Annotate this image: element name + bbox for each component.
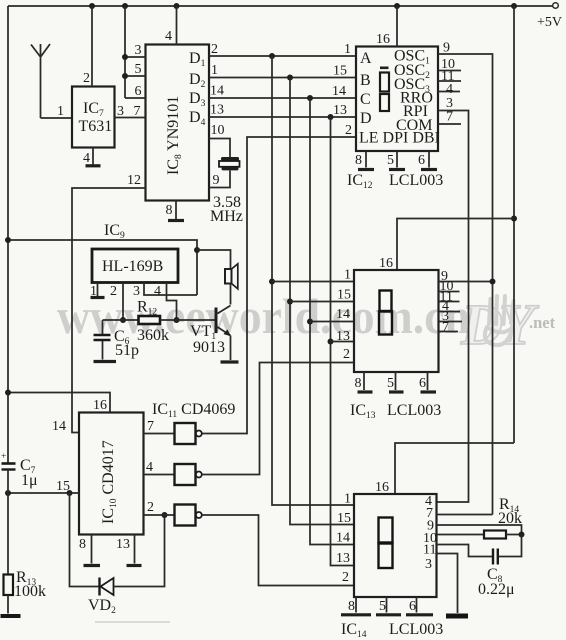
ground (IC14 pin8) xyxy=(341,613,371,616)
node: rail junction at IC12 pin16 drop xyxy=(394,3,400,9)
svg-text:D: D xyxy=(360,110,372,127)
display segments inside IC12 xyxy=(380,67,389,70)
wire IC7 pin3 to IC8 pin7 xyxy=(115,117,146,119)
svg-text:51p: 51p xyxy=(115,342,139,359)
svg-text:8: 8 xyxy=(166,203,173,218)
node: junction pin3 xyxy=(122,54,128,60)
wire IC14 pin5 to ground xyxy=(386,597,388,613)
wire IC10 pin16 to left rail xyxy=(8,393,110,413)
IC9 supply wire from left rail xyxy=(8,240,197,295)
wire +5V branch to IC14 pin16 xyxy=(395,443,514,494)
node: bus3 tap IC13 pin14 xyxy=(307,319,313,325)
svg-text:1: 1 xyxy=(211,63,218,78)
+5V supply rail (top) xyxy=(8,5,553,7)
svg-text:11: 11 xyxy=(423,543,436,558)
svg-text:LCL003: LCL003 xyxy=(387,402,441,419)
svg-text:A: A xyxy=(360,50,372,67)
bus wire 2 (D2 to IC13 pin15 / IC14 pin15) xyxy=(290,78,354,525)
svg-text:8: 8 xyxy=(348,599,355,614)
svg-text:3: 3 xyxy=(425,557,432,572)
wire stub IC12 pin10 xyxy=(438,70,461,72)
ground (IC7 pin4) xyxy=(86,164,101,167)
resistor R14 20k xyxy=(484,531,506,539)
svg-text:IC11 CD4069: IC11 CD4069 xyxy=(152,401,235,420)
wire IC10 pin2 to inverter G3 xyxy=(144,514,175,516)
wire to IC8 pin3 xyxy=(125,56,146,58)
svg-text:6: 6 xyxy=(135,84,142,99)
node: D3 bus tap xyxy=(307,95,313,101)
svg-text:12: 12 xyxy=(127,173,141,188)
svg-text:8: 8 xyxy=(355,153,362,168)
svg-text:7: 7 xyxy=(446,110,453,125)
svg-text:COM: COM xyxy=(396,117,432,134)
wire R13 to ground xyxy=(7,595,9,614)
svg-text:5: 5 xyxy=(135,62,142,77)
inverter U11b xyxy=(175,464,196,485)
svg-text:8: 8 xyxy=(79,537,86,552)
speaker xyxy=(225,269,232,284)
IC7 T631 xyxy=(72,87,115,148)
wire IC14 pin10 to R14 xyxy=(437,534,485,536)
svg-text:IC12: IC12 xyxy=(347,172,373,191)
wire IC8 pin8 to ground xyxy=(175,201,177,220)
svg-text:IC8 YN9101: IC8 YN9101 xyxy=(165,96,184,175)
wire IC10 pin15 to left rail xyxy=(8,492,79,494)
display digit 8 inside IC13 xyxy=(380,291,392,312)
wire stub IC13 pin4 xyxy=(439,311,461,313)
svg-text:16: 16 xyxy=(93,398,107,413)
node: junction at y218 xyxy=(511,216,517,222)
node: rail junction at right +5V drop xyxy=(511,3,517,9)
node: junction pin4/base xyxy=(174,317,180,323)
node: bus2 tap IC13 pin15 xyxy=(287,299,293,305)
wire IC7 pin2 to +5V rail xyxy=(91,6,93,87)
svg-text:8: 8 xyxy=(355,376,362,391)
antenna xyxy=(31,44,50,118)
svg-text:14: 14 xyxy=(210,84,224,99)
svg-text:IC13: IC13 xyxy=(350,402,376,421)
svg-text:14: 14 xyxy=(52,419,66,434)
svg-text:4: 4 xyxy=(446,82,453,97)
svg-text:13: 13 xyxy=(336,551,350,566)
wire IC12 pin16 to +5V rail xyxy=(396,6,398,47)
svg-text:1μ: 1μ xyxy=(21,472,38,489)
wire antenna to IC7 pin1 xyxy=(41,117,73,119)
node: junction pin2/C6 xyxy=(120,317,126,323)
svg-text:7: 7 xyxy=(442,320,449,335)
transistor VT1 9013 xyxy=(215,308,218,334)
wire IC13 pin8 to ground xyxy=(363,372,365,390)
wire IC8 pin10 to crystal xyxy=(209,139,230,158)
svg-text:6: 6 xyxy=(418,153,425,168)
svg-text:16: 16 xyxy=(376,32,390,47)
ground (IC10 pin13) xyxy=(127,564,142,567)
svg-text:4: 4 xyxy=(83,151,90,166)
svg-text:14: 14 xyxy=(336,531,350,546)
left supply rail wire xyxy=(7,6,9,463)
svg-text:100k: 100k xyxy=(14,583,46,600)
ground (IC14 pin6) xyxy=(406,613,433,616)
wire G3 output to IC14 pin2 (LE) xyxy=(202,515,354,586)
node: junction pin5 xyxy=(122,73,128,79)
svg-text:1: 1 xyxy=(344,268,351,283)
IC12 LCL003 xyxy=(356,47,438,152)
wire IC8 pin4 to +5V rail xyxy=(176,6,178,45)
capacitor C6 51p xyxy=(102,320,104,334)
wire IC7 pin4 to ground xyxy=(92,148,94,165)
svg-text:360k: 360k xyxy=(137,327,169,344)
ground (IC13 pin8) xyxy=(358,390,373,393)
wire IC10 pin7 to inverter G1 xyxy=(144,433,175,435)
wire bus4 to IC13 pin13 xyxy=(331,341,355,343)
svg-text:9013: 9013 xyxy=(193,339,225,356)
ground (C6) xyxy=(94,360,117,363)
wire LE net: inverter G1 output to IC12 pin2 xyxy=(202,137,356,434)
svg-text:6: 6 xyxy=(419,376,426,391)
ground (IC13 pin5) xyxy=(389,390,404,393)
IC13 LCL003 xyxy=(354,270,439,372)
node: rail junction at IC8 pins 3/5/6 drop xyxy=(122,3,128,9)
svg-text:3: 3 xyxy=(135,43,142,58)
svg-text:1: 1 xyxy=(344,42,351,57)
node: junction VD2 to pin2 wire xyxy=(162,512,168,518)
svg-text:4: 4 xyxy=(154,284,161,299)
svg-text:9: 9 xyxy=(443,41,450,56)
IC14 LCL003 xyxy=(354,494,437,597)
svg-text:HL-169B: HL-169B xyxy=(102,258,163,275)
resistor R13 100k xyxy=(4,575,14,596)
wire IC12 pin6 to ground xyxy=(428,151,430,168)
inverter U11c xyxy=(175,505,196,526)
ground (bottom left) xyxy=(1,614,21,618)
IC10 CD4017 xyxy=(79,413,144,535)
wire IC14 pin6 to ground xyxy=(416,597,418,613)
wire VD2 branch: pin15 node down, diode, up to pin2 node xyxy=(70,493,100,587)
svg-text:4: 4 xyxy=(165,29,172,44)
wire IC12 pin5 to ground xyxy=(396,151,398,168)
svg-text:2: 2 xyxy=(342,570,349,585)
node: rail junction at IC7 pin2 drop xyxy=(89,3,95,9)
wire IC10 pin13 to ground xyxy=(134,535,136,564)
IC9 HL-169B xyxy=(92,249,178,283)
node: junction on left rail (pin16 wire) xyxy=(5,390,11,396)
wire speaker to VT1 collector xyxy=(230,284,232,305)
wire to IC13 pin16 xyxy=(397,219,514,271)
wire IC14 pin9 to R14 right node xyxy=(437,525,522,535)
svg-text:15: 15 xyxy=(333,64,347,79)
bus wire 1 (D1 to IC13 pin1 / IC14 pin1) xyxy=(272,56,354,505)
svg-text:20k: 20k xyxy=(498,510,522,527)
wire stub IC12 pin11 xyxy=(438,80,461,82)
wire IC12 pin9 (OSC1) down right side xyxy=(438,54,493,515)
ground (IC12 pin8) xyxy=(358,168,374,171)
node: rail junction at IC8 pin4 xyxy=(174,3,180,9)
wire +5V drop right side to IC13 pin16 xyxy=(513,6,515,443)
svg-text:7: 7 xyxy=(134,104,141,119)
svg-text:B: B xyxy=(360,72,371,89)
svg-text:+: + xyxy=(1,452,6,462)
inverter U11a xyxy=(175,423,196,444)
svg-text:13: 13 xyxy=(333,103,347,118)
svg-text:D2: D2 xyxy=(189,71,206,90)
svg-text:LCL003: LCL003 xyxy=(389,621,443,638)
wire IC13 pin5 to ground xyxy=(395,372,397,390)
svg-text:2: 2 xyxy=(83,71,90,86)
svg-text:1: 1 xyxy=(57,104,64,119)
svg-text:VD2: VD2 xyxy=(88,597,116,616)
svg-text:2: 2 xyxy=(211,42,218,57)
svg-text:7: 7 xyxy=(147,419,154,434)
svg-text:13: 13 xyxy=(336,329,350,344)
wire to IC8 pin6 xyxy=(125,97,146,99)
svg-text:D3: D3 xyxy=(189,90,206,109)
wire IC14 pin7 to OSC1 net riser xyxy=(437,514,493,516)
svg-text:D4: D4 xyxy=(189,109,206,128)
svg-text:1: 1 xyxy=(344,492,351,507)
node: junction pin9/OSC1 riser xyxy=(490,279,496,285)
ground (HL pin1) xyxy=(91,296,105,299)
wire IC13 pin6 to ground xyxy=(427,372,429,390)
+5V terminal xyxy=(553,3,559,9)
diode VD2 xyxy=(98,578,100,596)
ground (IC14 pin5) xyxy=(376,613,401,616)
node: junction VD2 branch xyxy=(67,490,73,496)
capacitor C7 1u (in left rail) xyxy=(2,462,16,465)
ground (VT1 emitter) xyxy=(221,360,239,363)
svg-text:2: 2 xyxy=(147,500,154,515)
svg-text:MHz: MHz xyxy=(210,208,243,225)
ground (IC14 pin3) xyxy=(446,614,468,619)
wire to IC8 pin5 xyxy=(125,75,146,77)
ground (IC13 pin6) xyxy=(421,390,437,393)
svg-text:3: 3 xyxy=(117,104,124,119)
node: junction R14/C8/pin9 xyxy=(519,532,525,538)
wire stub IC12 pin7 xyxy=(438,123,461,125)
svg-text:LCL003: LCL003 xyxy=(389,172,443,189)
node: junction on left rail xyxy=(5,237,11,243)
svg-text:IC14: IC14 xyxy=(341,621,367,640)
svg-text:D1: D1 xyxy=(189,50,206,69)
node: D2 bus tap xyxy=(287,75,293,81)
svg-text:4: 4 xyxy=(146,460,153,475)
wire bus2 to IC13 pin15 xyxy=(290,301,354,303)
svg-text:2: 2 xyxy=(343,347,350,362)
svg-text:.net: .net xyxy=(529,313,556,332)
ground (IC12 pin5) xyxy=(389,168,405,171)
node: speaker branch junction xyxy=(194,247,200,253)
watermark DIY logo xyxy=(460,292,556,357)
svg-text:15: 15 xyxy=(337,511,351,526)
watermark www.eeworld.com.cn xyxy=(57,288,470,344)
svg-text:16: 16 xyxy=(379,256,393,271)
svg-text:5: 5 xyxy=(387,153,394,168)
wire IC10 pin4 to inverter G2 xyxy=(144,474,175,476)
bus wire 3 (D3 to IC13 pin14 / IC14 pin14) xyxy=(310,98,354,545)
wire IC14 pin8 to ground xyxy=(355,597,357,613)
svg-text:9: 9 xyxy=(213,173,220,188)
wire IC12 pin3 (RPI) down to IC14 pin4 xyxy=(437,111,469,503)
wire stub IC12 pin4 xyxy=(438,91,460,93)
svg-text:IC7: IC7 xyxy=(83,100,104,119)
resistor R12 360k xyxy=(139,316,161,324)
IC8 YN9101 xyxy=(146,45,210,201)
svg-text:16: 16 xyxy=(375,480,389,495)
ground (IC8 pin8) xyxy=(168,219,184,222)
svg-text:13: 13 xyxy=(210,103,224,118)
wire D1: IC8 pin2 to IC12 pin1 xyxy=(209,55,356,57)
wire crystal to IC8 pin9 xyxy=(209,171,230,188)
wire IC13 pin9 to OSC1 net xyxy=(439,281,493,283)
svg-text:IC9: IC9 xyxy=(104,222,125,241)
svg-text:13: 13 xyxy=(116,537,130,552)
wire D3: IC8 pin14 to IC12 pin14 xyxy=(209,97,356,99)
wire D2: IC8 pin1 to IC12 pin15 xyxy=(209,77,356,79)
svg-text:6: 6 xyxy=(409,599,416,614)
scan artifact line bottom left xyxy=(95,621,170,623)
svg-text:C: C xyxy=(360,91,371,108)
wire IC14 pin3 to ground xyxy=(437,554,458,614)
wire bus3 to IC13 pin14 xyxy=(310,321,354,323)
wire R12 to VT1 base xyxy=(160,319,215,321)
wire +5V drop to IC8 pins 3/5 xyxy=(124,6,126,98)
node: bus1 tap IC13 pin1 xyxy=(269,279,275,285)
svg-text:15: 15 xyxy=(337,288,351,303)
wire stub IC13 pin7 xyxy=(439,331,459,333)
wire IC12 pin8 to ground xyxy=(365,151,367,168)
node: D4 bus tap xyxy=(328,114,334,120)
svg-text:T631: T631 xyxy=(79,118,113,135)
wire HL pin1 to ground xyxy=(97,283,99,297)
svg-text:2: 2 xyxy=(110,284,117,299)
wire IC8 pin12 to IC10 pin14 xyxy=(72,188,146,433)
wire bus1 to IC13 pin1 xyxy=(272,281,354,283)
wire C6 branch / R12 left xyxy=(103,319,139,321)
svg-text:3: 3 xyxy=(133,284,140,299)
wire speaker branch xyxy=(197,250,231,269)
svg-text:+5V: +5V xyxy=(537,15,562,30)
wire HL pin2 down to R12 node xyxy=(122,283,124,321)
capacitor C8 0.22u xyxy=(492,549,494,565)
svg-text:14: 14 xyxy=(336,307,350,322)
wire stub IC13 pin10 xyxy=(439,291,460,293)
svg-text:15: 15 xyxy=(56,479,70,494)
wire HL pin4 to transistor base node xyxy=(167,283,177,321)
svg-text:5: 5 xyxy=(387,376,394,391)
node: D1 bus tap xyxy=(269,53,275,59)
svg-text:5: 5 xyxy=(379,599,386,614)
wire stub IC13 pin11 xyxy=(439,301,460,303)
display digit 8 inside IC14 xyxy=(379,518,393,543)
node: bus4 tap IC13 pin13 xyxy=(328,339,334,345)
node: junction on left rail (pin15) xyxy=(5,490,11,496)
wire IC14 pin11 to C8 xyxy=(437,545,493,557)
ground (IC12 pin6) xyxy=(421,168,437,171)
wire stub IC13 pin3 xyxy=(439,321,463,323)
ground (IC10 pin8) xyxy=(84,564,101,567)
wire IC10 pin8 to ground xyxy=(91,535,93,564)
wire D4: IC8 pin13 to IC12 pin13 xyxy=(209,116,356,118)
crystal 3.58MHz xyxy=(221,157,239,161)
svg-text:0.22μ: 0.22μ xyxy=(478,581,515,598)
svg-text:10: 10 xyxy=(211,123,225,138)
svg-text:2: 2 xyxy=(345,123,352,138)
wire G2 output to IC13 pin2 (LE) xyxy=(202,363,354,475)
wire HL pin3 to speaker riser xyxy=(144,283,197,296)
svg-text:IC10 CD4017: IC10 CD4017 xyxy=(100,440,119,524)
svg-text:14: 14 xyxy=(332,84,346,99)
bus wire 4 (D4 to IC13 pin13 / IC14 pin13) xyxy=(331,117,355,566)
